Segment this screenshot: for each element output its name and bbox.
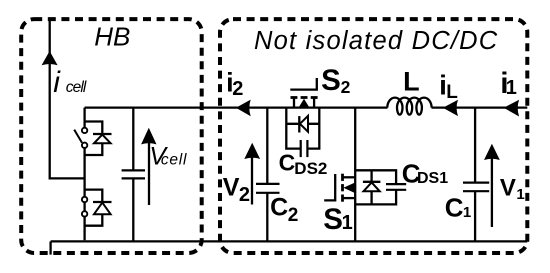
svg-text:S: S bbox=[323, 203, 343, 236]
svg-text:S: S bbox=[321, 64, 341, 97]
svg-text:V: V bbox=[500, 174, 516, 201]
svg-text:2: 2 bbox=[239, 184, 250, 206]
svg-text:HB: HB bbox=[94, 22, 130, 52]
svg-text:C: C bbox=[279, 150, 296, 176]
svg-text:DS2: DS2 bbox=[294, 159, 327, 178]
svg-text:C: C bbox=[270, 193, 288, 221]
svg-text:C: C bbox=[445, 193, 464, 223]
svg-text:cell: cell bbox=[66, 79, 87, 96]
svg-text:cell: cell bbox=[161, 152, 187, 169]
svg-text:L: L bbox=[403, 67, 420, 97]
svg-text:1: 1 bbox=[506, 77, 517, 99]
svg-text:2: 2 bbox=[232, 78, 243, 100]
svg-text:V: V bbox=[223, 173, 240, 201]
svg-text:2: 2 bbox=[288, 205, 299, 226]
svg-text:L: L bbox=[446, 82, 458, 103]
svg-text:Not isolated DC/DC: Not isolated DC/DC bbox=[254, 27, 498, 55]
svg-text:i: i bbox=[53, 66, 61, 99]
svg-text:1: 1 bbox=[342, 212, 353, 234]
svg-text:1: 1 bbox=[516, 186, 524, 203]
svg-text:DS1: DS1 bbox=[417, 170, 448, 187]
svg-text:2: 2 bbox=[341, 77, 351, 97]
svg-text:1: 1 bbox=[463, 204, 471, 221]
